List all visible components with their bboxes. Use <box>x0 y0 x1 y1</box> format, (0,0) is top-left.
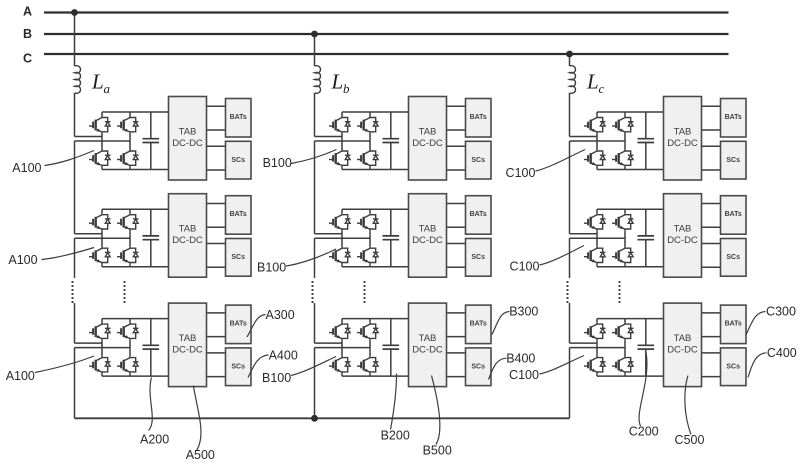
svg-text:C300: C300 <box>766 305 796 319</box>
svg-text:C500: C500 <box>675 433 705 447</box>
svg-text:L: L <box>331 70 344 94</box>
svg-text:C100: C100 <box>509 368 539 382</box>
svg-text:A300: A300 <box>265 308 294 322</box>
svg-text:A100: A100 <box>12 161 41 175</box>
svg-text:B100: B100 <box>257 261 286 275</box>
svg-text:B100: B100 <box>262 371 291 385</box>
svg-text:b: b <box>343 81 350 96</box>
svg-text:L: L <box>91 70 104 94</box>
svg-text:C100: C100 <box>510 260 540 274</box>
svg-text:C: C <box>23 52 32 66</box>
svg-text:A400: A400 <box>269 348 298 362</box>
svg-text:C200: C200 <box>629 425 659 439</box>
svg-text:A200: A200 <box>140 432 169 446</box>
svg-text:C100: C100 <box>506 166 536 180</box>
svg-text:A100: A100 <box>8 253 37 267</box>
svg-text:B: B <box>23 27 32 41</box>
svg-text:A: A <box>23 5 32 19</box>
svg-text:a: a <box>104 81 111 96</box>
svg-text:A500: A500 <box>186 448 215 462</box>
svg-text:B100: B100 <box>263 156 292 170</box>
svg-text:L: L <box>586 70 599 94</box>
svg-text:A100: A100 <box>6 369 35 383</box>
svg-text:B200: B200 <box>381 428 410 442</box>
svg-text:B500: B500 <box>423 443 452 457</box>
svg-text:C400: C400 <box>767 346 797 360</box>
svg-text:B300: B300 <box>509 305 538 319</box>
svg-text:c: c <box>599 81 605 96</box>
svg-text:B400: B400 <box>506 351 535 365</box>
